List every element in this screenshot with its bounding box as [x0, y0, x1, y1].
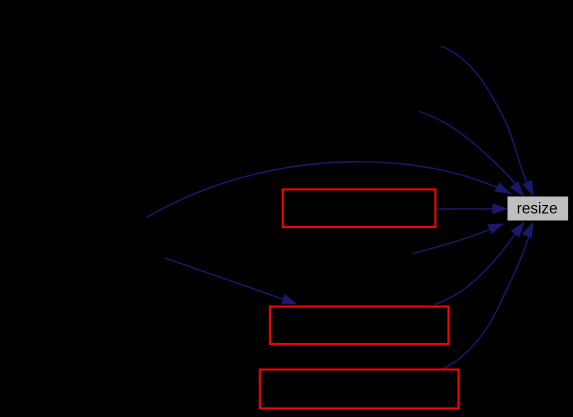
arrowhead into resize left edge (horizontal) — [493, 203, 509, 214]
node box1 (red, truncated caller) — [283, 189, 436, 227]
arrowhead into resize top-left corner (from left caller arc) — [495, 182, 511, 194]
node box2 (red, truncated caller) — [270, 307, 449, 344]
arrowhead into resize bottom edge (from box3, steep) — [522, 222, 533, 238]
svg-text:resize: resize — [517, 201, 558, 218]
wire: edge from box2 to resize — [435, 223, 525, 305]
wire: edge from hidden top caller node 2 to resize — [420, 112, 524, 196]
node box3 (red, truncated caller) — [260, 370, 459, 409]
node resize (current function, grey) — [508, 197, 569, 221]
wire: edge from hidden mid caller node to resize — [412, 224, 504, 254]
wire: edge from node box1 to resize (horizontal) — [437, 208, 506, 210]
arrowhead into box2 top edge — [281, 294, 297, 304]
arrowhead into resize bottom-left corner — [488, 224, 504, 235]
wire: edge from hidden left caller node to box2 — [165, 258, 296, 304]
wire: edge from hidden left caller node to resize (long top arc) — [147, 162, 511, 218]
wire: edge from box3 to resize — [440, 223, 533, 370]
arrowhead into resize top edge (steep, from top caller 1) — [522, 180, 533, 196]
wire: edge from hidden top caller node 1 to resize — [441, 46, 532, 192]
arrowhead into resize top edge (diagonal, from top caller 2) — [510, 181, 524, 196]
arrowhead into resize bottom edge (from box2) — [511, 222, 525, 238]
